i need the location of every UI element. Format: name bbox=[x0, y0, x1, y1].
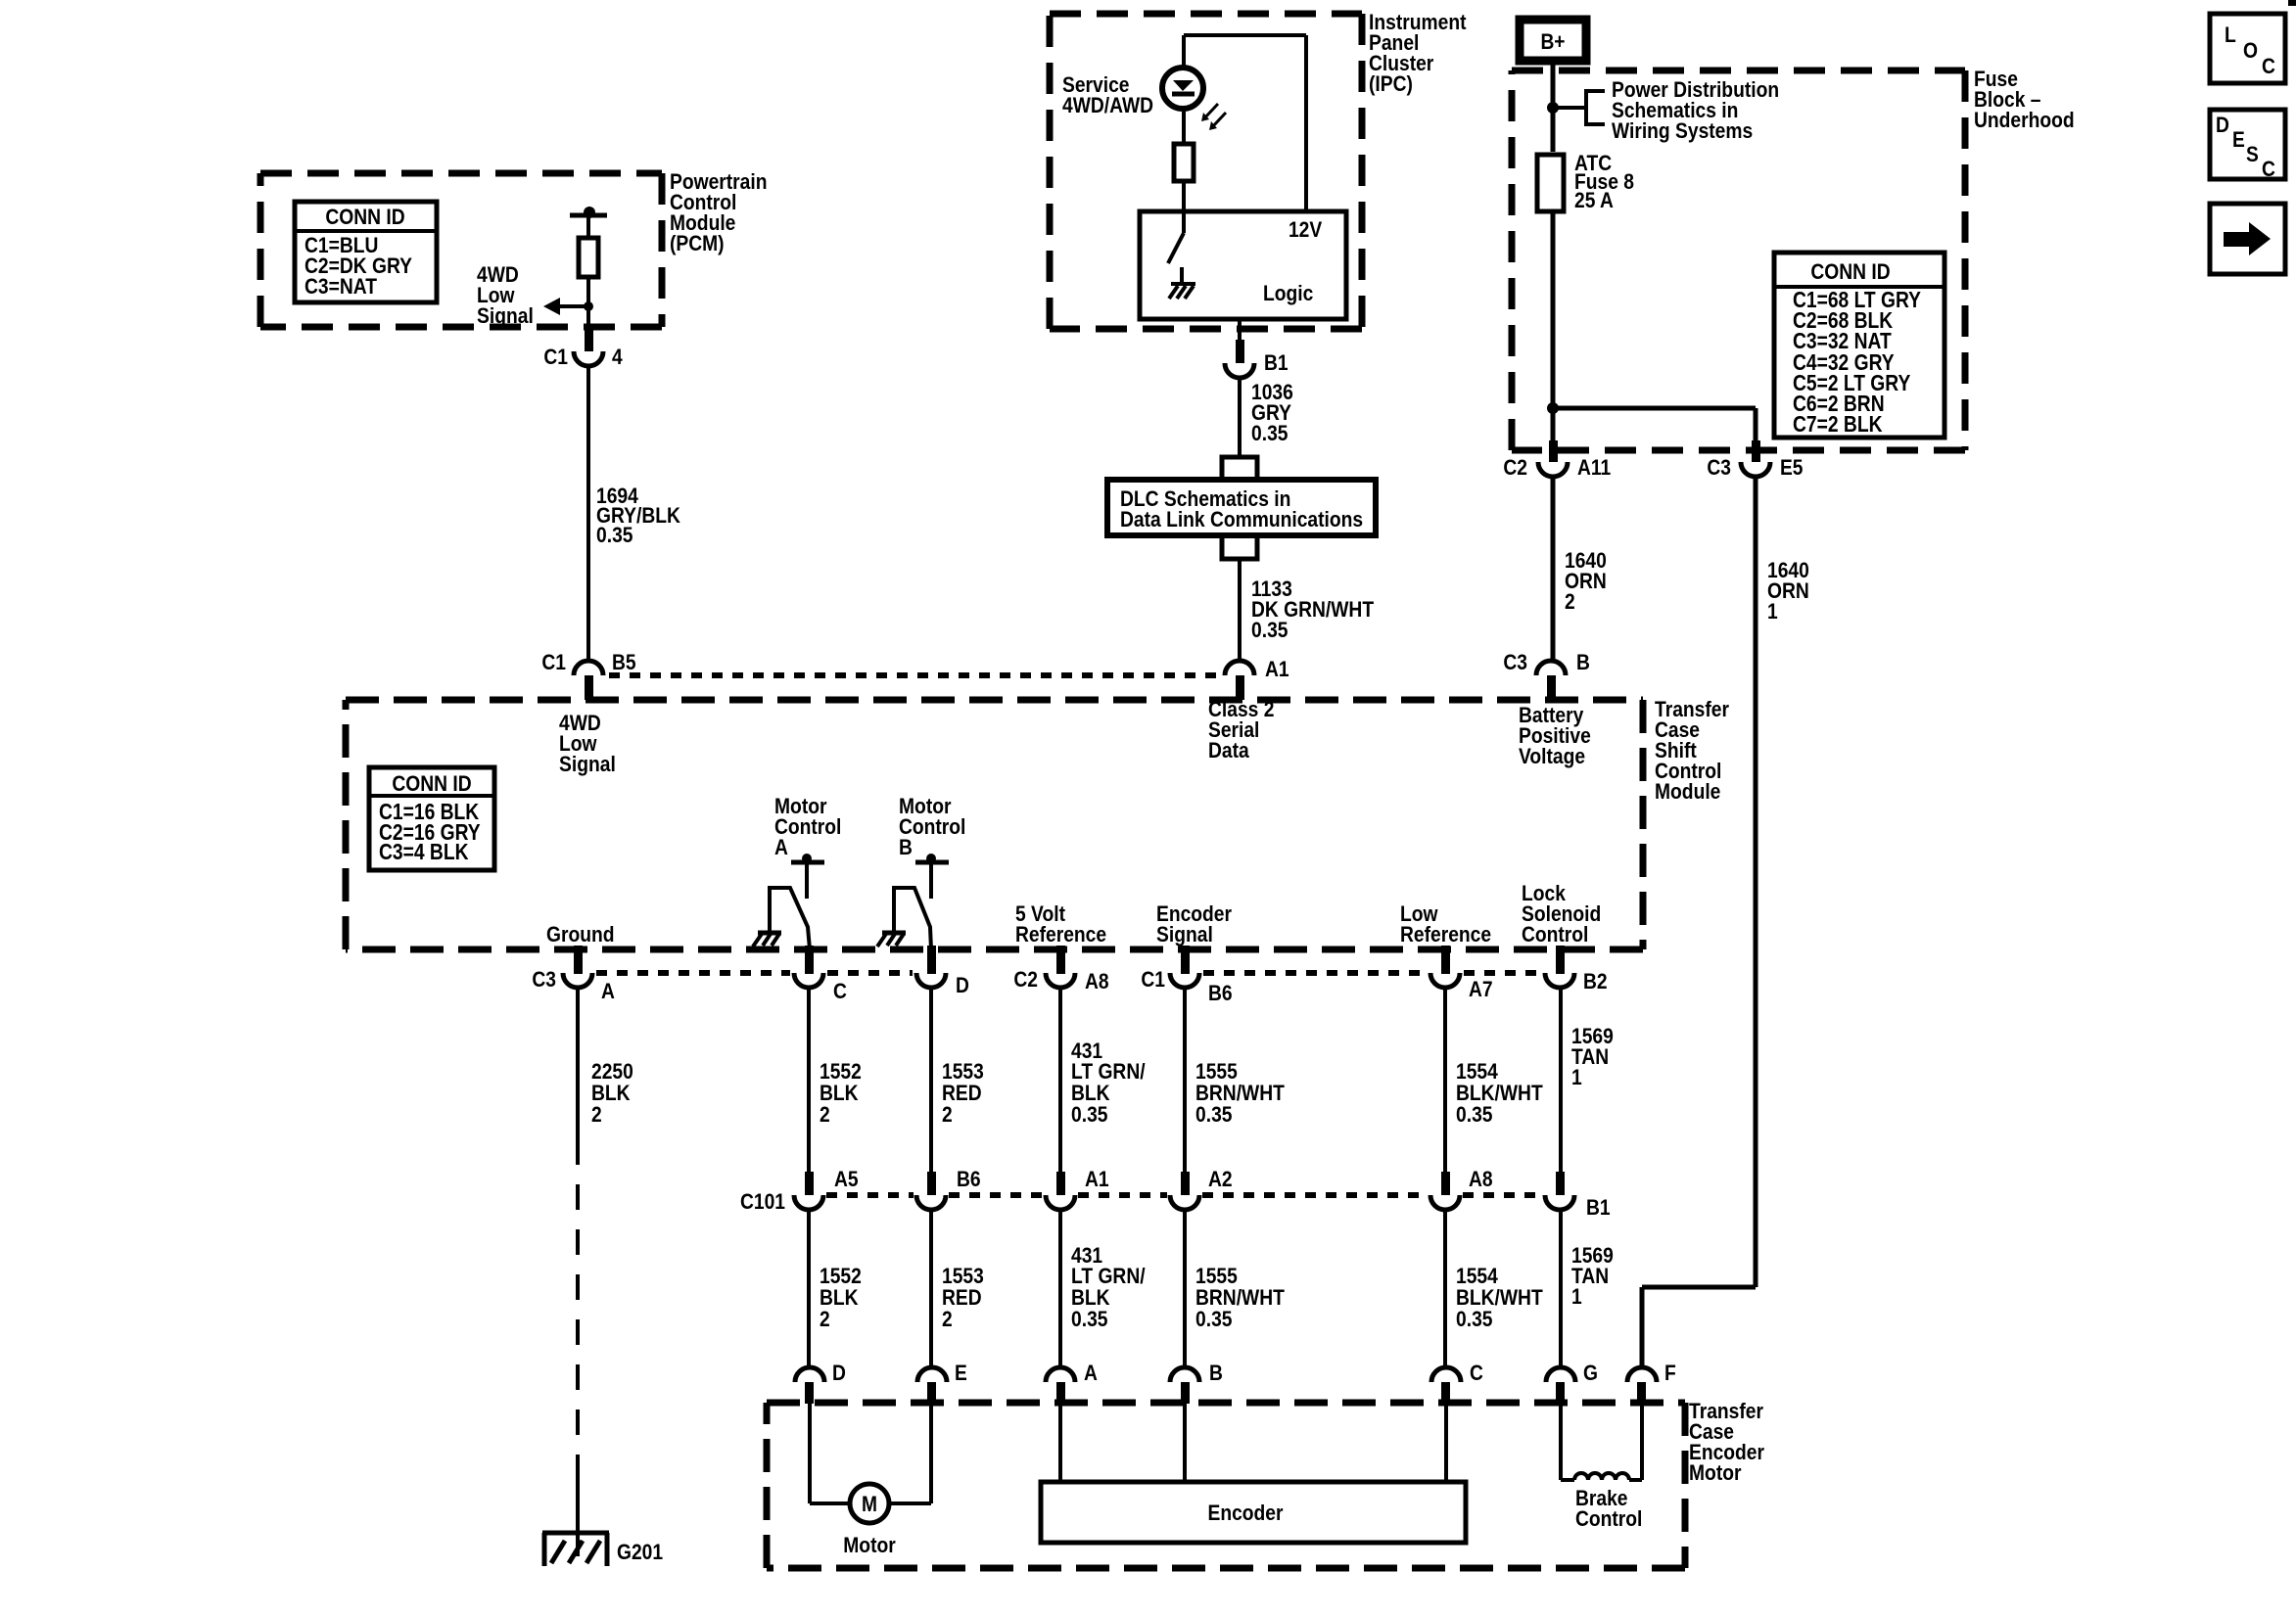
wire E to motor bbox=[929, 1404, 933, 1503]
connector C101 pin B6 bbox=[927, 1172, 936, 1195]
wire 1036 GRY bbox=[1238, 378, 1242, 457]
wire 1554 BLK/WHT (upper) bbox=[1443, 988, 1447, 1172]
connector C1 pin B5 (module) bbox=[574, 661, 603, 675]
connector pin D (encoder motor) bbox=[795, 1367, 824, 1382]
B+ battery feed box bbox=[1520, 20, 1586, 61]
svg-text:(IPC): (IPC) bbox=[1369, 71, 1413, 96]
svg-text:A: A bbox=[601, 979, 615, 1003]
svg-text:C: C bbox=[2262, 157, 2275, 181]
connector A1 (module) bbox=[1225, 661, 1254, 675]
svg-text:Control: Control bbox=[1575, 1506, 1642, 1531]
svg-text:C1: C1 bbox=[543, 345, 568, 369]
svg-text:A5: A5 bbox=[834, 1167, 859, 1191]
switch (IPC logic) bbox=[1182, 211, 1186, 233]
label Motor Control A bbox=[774, 794, 841, 859]
Transfer Case Encoder Motor dashed box bbox=[767, 1403, 1685, 1568]
svg-text:B: B bbox=[899, 835, 913, 859]
LED Service 4WD/AWD indicator bbox=[1162, 68, 1203, 109]
svg-text:C3: C3 bbox=[1707, 455, 1731, 480]
wire 1694 GRY/BLK bbox=[586, 366, 590, 661]
resistor (IPC) bbox=[1174, 144, 1194, 181]
svg-text:A7: A7 bbox=[1469, 977, 1493, 1001]
svg-text:C: C bbox=[2262, 54, 2275, 78]
dotted harness line (B6 to A7) bbox=[1203, 970, 1427, 976]
label Transfer Case Shift Control Module bbox=[1655, 697, 1729, 804]
svg-text:C1: C1 bbox=[541, 650, 566, 674]
wire 1555 BRN/WHT (lower) bbox=[1183, 1210, 1187, 1367]
connector C3 pin E5 (fuse block) bbox=[1752, 440, 1760, 462]
svg-text:12V: 12V bbox=[1289, 217, 1322, 242]
svg-text:Motor: Motor bbox=[843, 1533, 896, 1557]
svg-text:2: 2 bbox=[591, 1102, 602, 1127]
PCM module dashed box bbox=[260, 173, 662, 327]
dotted harness line C101 (A5 to B6) bbox=[826, 1192, 914, 1198]
connector pin C (motor control A) bbox=[805, 946, 814, 974]
PCM CONN ID table bbox=[295, 202, 437, 302]
svg-text:B1: B1 bbox=[1264, 350, 1289, 375]
IPC dashed box bbox=[1050, 14, 1362, 329]
svg-text:(PCM): (PCM) bbox=[670, 231, 725, 255]
svg-text:25 A: 25 A bbox=[1574, 188, 1614, 212]
svg-text:Reference: Reference bbox=[1015, 922, 1106, 947]
svg-text:B1: B1 bbox=[1586, 1195, 1611, 1220]
svg-text:Underhood: Underhood bbox=[1974, 108, 2075, 132]
connector C3 pin B (module battery) bbox=[1536, 661, 1566, 675]
svg-text:Ground: Ground bbox=[546, 922, 615, 947]
wire 2250 BLK ground bbox=[576, 988, 580, 1139]
Fuse Block Underhood dashed box bbox=[1512, 70, 1965, 450]
wire C to encoder bbox=[1444, 1404, 1448, 1482]
svg-text:C: C bbox=[833, 979, 847, 1003]
svg-text:M: M bbox=[862, 1492, 877, 1516]
dotted harness line (A to C) bbox=[596, 970, 790, 976]
wire A to encoder bbox=[1058, 1404, 1062, 1482]
svg-text:0.35: 0.35 bbox=[1071, 1102, 1108, 1127]
svg-text:C3: C3 bbox=[1503, 650, 1527, 674]
connector C1 pin 4 (PCM) bbox=[585, 327, 593, 351]
wire G to brake coil bbox=[1559, 1404, 1563, 1480]
svg-text:Data Link Communications: Data Link Communications bbox=[1120, 507, 1363, 531]
IPC logic box bbox=[1140, 211, 1346, 319]
connector pin B (encoder motor) bbox=[1170, 1367, 1199, 1382]
resistor (PCM pull-up) bbox=[579, 238, 598, 277]
DLC off-page staple top bbox=[1222, 457, 1257, 480]
CONN ID table (fuse block) bbox=[1774, 253, 1945, 438]
svg-text:Encoder: Encoder bbox=[1208, 1501, 1284, 1525]
wire 1569 TAN (upper) bbox=[1559, 988, 1563, 1172]
motor M bbox=[850, 1484, 889, 1523]
arrow 4WD Low Signal bbox=[560, 304, 588, 308]
dotted harness line C1 (B5 to A1) bbox=[609, 672, 1226, 678]
connector pin A7 (low ref) bbox=[1441, 946, 1450, 974]
dotted harness line (C to D) bbox=[827, 970, 913, 976]
svg-text:F: F bbox=[1664, 1361, 1676, 1385]
wire bbox=[1182, 180, 1186, 211]
svg-text:Control: Control bbox=[1522, 922, 1588, 947]
svg-text:2: 2 bbox=[1565, 589, 1575, 614]
wire 1553 RED (lower) bbox=[929, 1210, 933, 1367]
svg-text:D: D bbox=[2216, 113, 2229, 137]
svg-text:S: S bbox=[2246, 142, 2259, 166]
LED light arrows bbox=[1204, 104, 1218, 118]
svg-text:E: E bbox=[2232, 127, 2245, 152]
wire 1552 BLK (lower) bbox=[807, 1210, 811, 1367]
connector pin G (encoder motor) bbox=[1546, 1367, 1575, 1382]
wire D to motor bbox=[808, 1404, 812, 1503]
svg-text:A2: A2 bbox=[1208, 1167, 1233, 1191]
svg-text:C: C bbox=[1470, 1361, 1483, 1385]
label Battery Positive Voltage bbox=[1519, 703, 1591, 768]
svg-text:Signal: Signal bbox=[559, 752, 616, 776]
svg-text:4: 4 bbox=[612, 345, 623, 369]
svg-text:0.35: 0.35 bbox=[1071, 1307, 1108, 1331]
wire bbox=[586, 277, 590, 327]
wire 1553 RED (upper) bbox=[929, 988, 933, 1172]
svg-text:0.35: 0.35 bbox=[1456, 1307, 1493, 1331]
connector C101 pin A5 bbox=[805, 1172, 814, 1195]
dotted harness line C101 (A2 to A8) bbox=[1202, 1192, 1428, 1198]
svg-text:G201: G201 bbox=[617, 1540, 663, 1564]
svg-text:D: D bbox=[832, 1361, 846, 1385]
svg-text:A: A bbox=[774, 835, 788, 859]
dotted harness line C101 (A8 to B1) bbox=[1463, 1192, 1542, 1198]
connector C2 pin A11 (fuse block) bbox=[1549, 440, 1558, 462]
connector C2 pin A8 (5V ref) bbox=[1056, 946, 1065, 974]
wire 1554 BLK/WHT (lower) bbox=[1443, 1210, 1447, 1367]
wire 1552 BLK (upper) bbox=[807, 988, 811, 1172]
svg-text:Module: Module bbox=[1655, 779, 1720, 804]
svg-text:2: 2 bbox=[820, 1307, 830, 1331]
dotted harness line (A7 to B2) bbox=[1464, 970, 1541, 976]
svg-text:Signal: Signal bbox=[477, 303, 534, 328]
label Power Distribution bbox=[1612, 77, 1779, 143]
svg-text:1: 1 bbox=[1571, 1065, 1582, 1089]
svg-text:0.35: 0.35 bbox=[1251, 618, 1289, 642]
connector C1 pin B6 (encoder signal) bbox=[1181, 946, 1190, 974]
connector C101 pin A2 bbox=[1181, 1172, 1190, 1195]
wire coil to F bbox=[1629, 1478, 1642, 1482]
label Brake Control bbox=[1575, 1486, 1642, 1531]
wire fuse down bbox=[1551, 210, 1556, 442]
svg-text:0.35: 0.35 bbox=[596, 523, 633, 547]
connector B1 (IPC) bbox=[1236, 340, 1244, 363]
svg-text:1: 1 bbox=[1571, 1284, 1582, 1309]
motor control A switch bbox=[770, 888, 810, 949]
connector pin C (encoder motor) bbox=[1431, 1367, 1461, 1382]
svg-text:0.35: 0.35 bbox=[1195, 1307, 1233, 1331]
DLC off-page staple bottom bbox=[1222, 535, 1257, 559]
connector pin F (encoder motor) bbox=[1627, 1367, 1657, 1382]
wire logic to B1 bbox=[1238, 319, 1242, 341]
wire IPC top loop bbox=[1184, 33, 1306, 37]
PCM pull-up top bar bbox=[570, 213, 607, 218]
svg-text:A1: A1 bbox=[1085, 1167, 1109, 1191]
CONN ID table (module) bbox=[369, 767, 494, 870]
ground (motor control A) bbox=[758, 931, 781, 936]
svg-text:Reference: Reference bbox=[1400, 922, 1491, 947]
connector pin B2 (lock solenoid) bbox=[1556, 946, 1565, 974]
wire 1569 TAN (lower) bbox=[1559, 1210, 1563, 1367]
label Class 2 Serial Data bbox=[1208, 697, 1274, 762]
wire bbox=[586, 215, 590, 238]
brake control coil bbox=[1574, 1473, 1629, 1480]
svg-text:E: E bbox=[955, 1361, 967, 1385]
connector C101 pin A8 bbox=[1441, 1172, 1450, 1195]
svg-text:E5: E5 bbox=[1780, 455, 1804, 480]
svg-text:C2: C2 bbox=[1503, 455, 1527, 480]
label Transfer Case Encoder Motor bbox=[1689, 1399, 1764, 1485]
dotted harness line C101 (B6 to A1) bbox=[949, 1192, 1043, 1198]
wire 431 LT GRN/BLK (lower) bbox=[1058, 1210, 1062, 1367]
wire 1133 DK GRN/WHT bbox=[1238, 559, 1242, 661]
svg-text:O: O bbox=[2243, 38, 2258, 63]
wire B+ feed bbox=[1551, 62, 1556, 152]
connector C101 pin A1 bbox=[1056, 1172, 1065, 1195]
off-page bracket (power distribution) bbox=[1586, 91, 1605, 124]
svg-text:C1: C1 bbox=[1141, 967, 1165, 992]
ground G201 bbox=[542, 1531, 609, 1536]
svg-text:A8: A8 bbox=[1085, 969, 1109, 993]
motor control A contact bar bbox=[791, 860, 824, 865]
svg-text:G: G bbox=[1583, 1361, 1598, 1385]
motor control B contact bar bbox=[915, 860, 949, 865]
connector C101 pin B1 bbox=[1556, 1172, 1565, 1195]
ground (IPC logic) bbox=[1180, 267, 1184, 284]
wire tap to bracket bbox=[1553, 106, 1586, 110]
motor control B switch bbox=[894, 888, 931, 949]
Transfer Case Shift Control Module dashed box bbox=[346, 700, 1643, 949]
svg-text:C101: C101 bbox=[740, 1189, 785, 1214]
svg-text:Voltage: Voltage bbox=[1519, 744, 1585, 768]
fuse ATC Fuse 8 25A bbox=[1537, 155, 1564, 211]
svg-text:2: 2 bbox=[942, 1102, 953, 1127]
dotted harness line C101 (A1 to A2) bbox=[1078, 1192, 1167, 1198]
wire 431 LT GRN/BLK (upper) bbox=[1058, 988, 1062, 1172]
wire bbox=[1182, 109, 1186, 144]
node fuse branch bbox=[1547, 402, 1559, 414]
label Encoder Signal bbox=[1156, 901, 1232, 947]
svg-text:C3=NAT: C3=NAT bbox=[305, 274, 377, 299]
IPC label bbox=[1369, 10, 1467, 96]
svg-text:D: D bbox=[956, 973, 969, 997]
svg-text:B: B bbox=[1209, 1361, 1223, 1385]
label Ground bbox=[546, 922, 615, 947]
page corner mark bbox=[2288, 0, 2296, 6]
svg-text:Motor: Motor bbox=[1689, 1460, 1742, 1485]
label 4WD Low Signal (module) bbox=[559, 711, 616, 776]
encoder box bbox=[1041, 1482, 1466, 1543]
svg-text:0.35: 0.35 bbox=[1456, 1102, 1493, 1127]
svg-text:2: 2 bbox=[942, 1307, 953, 1331]
svg-text:CONN ID: CONN ID bbox=[325, 205, 404, 229]
svg-text:Signal: Signal bbox=[1156, 922, 1213, 947]
svg-text:B6: B6 bbox=[957, 1167, 981, 1191]
arrow legend box bbox=[2210, 204, 2285, 274]
label 5 Volt Reference bbox=[1015, 901, 1106, 947]
DLC reference box bbox=[1107, 480, 1376, 535]
svg-text:A1: A1 bbox=[1265, 657, 1289, 681]
wire 1640 ORN 2 bbox=[1551, 477, 1556, 661]
svg-text:4WD/AWD: 4WD/AWD bbox=[1062, 93, 1153, 117]
wire 1555 BRN/WHT (upper) bbox=[1183, 988, 1187, 1172]
label Fuse Block Underhood bbox=[1974, 67, 2075, 132]
wire branch right bbox=[1553, 406, 1756, 411]
svg-text:1: 1 bbox=[1767, 599, 1778, 624]
svg-text:B: B bbox=[1576, 650, 1590, 674]
svg-text:L: L bbox=[2225, 23, 2236, 47]
svg-text:Logic: Logic bbox=[1263, 281, 1313, 305]
svg-text:2: 2 bbox=[820, 1102, 830, 1127]
node 4WD Low Signal junction bbox=[584, 301, 593, 311]
svg-text:A: A bbox=[1084, 1361, 1098, 1385]
label Motor Control B bbox=[899, 794, 965, 859]
svg-text:0.35: 0.35 bbox=[1251, 421, 1289, 445]
svg-text:CONN ID: CONN ID bbox=[392, 771, 471, 796]
svg-text:C3: C3 bbox=[532, 967, 556, 992]
svg-text:B6: B6 bbox=[1208, 981, 1233, 1005]
connector C3 pin A (ground) bbox=[574, 946, 583, 974]
svg-text:Data: Data bbox=[1208, 738, 1249, 762]
connector pin A (encoder motor) bbox=[1046, 1367, 1075, 1382]
svg-text:B2: B2 bbox=[1583, 969, 1608, 993]
label Low Reference bbox=[1400, 901, 1491, 947]
svg-text:A8: A8 bbox=[1469, 1167, 1493, 1191]
connector pin E (encoder motor) bbox=[917, 1367, 947, 1382]
label Lock Solenoid Control bbox=[1522, 881, 1601, 947]
PCM label bbox=[670, 169, 768, 255]
svg-text:C3=4 BLK: C3=4 BLK bbox=[379, 839, 469, 864]
label 4WD Low Signal (PCM) bbox=[477, 262, 534, 328]
label Service 4WD/AWD bbox=[1062, 72, 1153, 117]
DESC legend box bbox=[2210, 110, 2285, 179]
svg-text:0.35: 0.35 bbox=[1195, 1102, 1233, 1127]
LOC legend box bbox=[2210, 14, 2285, 83]
svg-text:CONN ID: CONN ID bbox=[1810, 259, 1890, 284]
node power distribution tap bbox=[1547, 102, 1559, 114]
wire 1640 ORN 1 (long right feed) bbox=[1754, 477, 1758, 1287]
svg-text:B5: B5 bbox=[612, 650, 636, 674]
svg-text:A11: A11 bbox=[1577, 455, 1611, 480]
svg-text:B+: B+ bbox=[1540, 29, 1565, 54]
svg-text:C2: C2 bbox=[1013, 967, 1038, 992]
ground (motor control B) bbox=[882, 931, 906, 936]
svg-text:C7=2 BLK: C7=2 BLK bbox=[1793, 411, 1883, 437]
wire B to encoder bbox=[1183, 1404, 1187, 1482]
svg-text:Wiring Systems: Wiring Systems bbox=[1612, 118, 1753, 143]
connector pin D (motor control B) bbox=[927, 946, 936, 974]
